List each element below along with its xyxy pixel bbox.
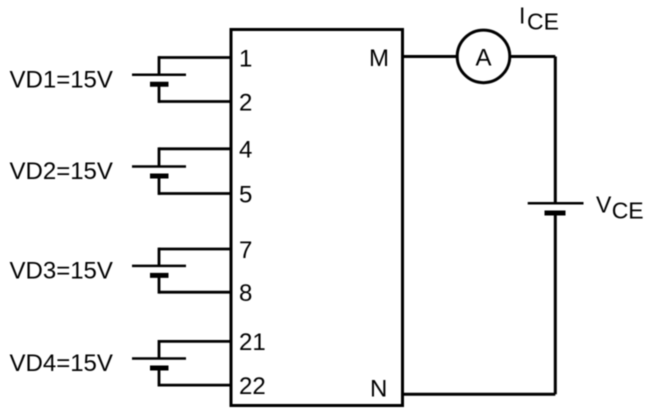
svg-text:VD2=15V: VD2=15V (10, 158, 113, 185)
svg-text:VD4=15V: VD4=15V (10, 350, 113, 377)
svg-text:VD1=15V: VD1=15V (10, 66, 113, 93)
svg-text:1: 1 (239, 45, 252, 72)
svg-text:CE: CE (527, 9, 559, 35)
svg-text:CE: CE (612, 197, 644, 223)
svg-text:M: M (369, 45, 389, 72)
svg-text:22: 22 (239, 373, 266, 400)
svg-text:N: N (370, 375, 387, 402)
svg-text:7: 7 (239, 237, 252, 264)
svg-text:21: 21 (239, 329, 266, 356)
svg-text:5: 5 (239, 181, 252, 208)
svg-text:2: 2 (239, 89, 252, 116)
svg-text:VD3=15V: VD3=15V (10, 257, 113, 284)
svg-text:I: I (519, 3, 525, 29)
svg-text:8: 8 (239, 280, 252, 307)
svg-text:A: A (475, 45, 491, 72)
svg-text:4: 4 (239, 137, 252, 164)
svg-text:V: V (596, 191, 612, 217)
